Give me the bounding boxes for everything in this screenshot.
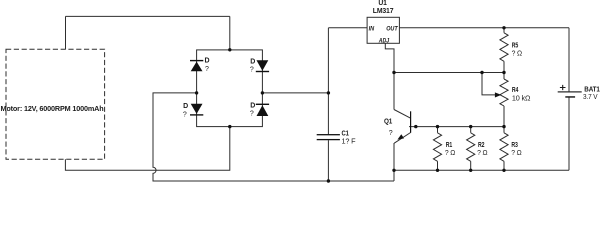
- svg-text:Q1: Q1: [384, 119, 392, 126]
- battery BAT1 long plate: [558, 91, 582, 92]
- wire ADJ pin jog: [385, 43, 394, 109]
- svg-text:R5: R5: [512, 43, 519, 50]
- junction emitter bottom: [392, 169, 395, 172]
- potentiometer R4 wiper arrow: [495, 92, 501, 97]
- capacitor C1 bottom plate: [317, 139, 340, 140]
- junction R3 bottom: [502, 169, 505, 172]
- junction bridge top: [228, 48, 231, 51]
- wire R3 leads: [503, 127, 505, 171]
- junction wiper node: [480, 71, 483, 74]
- wire ADJ node to R5/R4 junction: [394, 72, 504, 74]
- svg-text:? Ω: ? Ω: [477, 150, 487, 157]
- svg-text:? Ω: ? Ω: [511, 150, 521, 157]
- diode D1 cathode bar: [190, 60, 203, 61]
- svg-text:IN: IN: [369, 25, 375, 32]
- resistor R1 zigzag: [433, 133, 441, 162]
- svg-text:ADJ: ADJ: [378, 37, 390, 44]
- svg-text:C1: C1: [342, 130, 350, 137]
- svg-text:R1: R1: [446, 142, 453, 149]
- wire Q1 collector diagonal: [394, 110, 411, 119]
- svg-text:? Ω: ? Ω: [445, 150, 455, 157]
- diode D3 bottom-left triangle: [191, 104, 203, 114]
- svg-text:LM317: LM317: [373, 8, 394, 15]
- wire bottom right rail: [394, 169, 569, 171]
- svg-text:R2: R2: [478, 142, 485, 149]
- junction R5 bottom R4 top: [502, 71, 505, 74]
- wire R5 leads: [503, 28, 505, 73]
- junction cap bottom rail: [327, 179, 330, 182]
- svg-text:?: ?: [205, 66, 209, 73]
- LM317 box U1: [367, 17, 399, 43]
- svg-text:1? F: 1? F: [342, 139, 356, 146]
- wire R4 leads: [503, 73, 505, 127]
- potentiometer R4 zigzag: [500, 79, 508, 106]
- svg-text:D: D: [250, 59, 255, 66]
- svg-text:10 kΩ: 10 kΩ: [512, 95, 530, 102]
- svg-text:3.7 V: 3.7 V: [583, 94, 598, 101]
- wire bridge top lead: [229, 16, 231, 50]
- wire cap top lead: [327, 28, 329, 135]
- svg-text:?: ?: [183, 111, 187, 118]
- transistor Q1 base bar: [410, 111, 411, 132]
- junction R3 top R4 bottom: [502, 125, 505, 128]
- resistor R3 zigzag: [500, 133, 508, 162]
- resistor R2 zigzag: [467, 133, 475, 162]
- wire Q1 base to resistors: [409, 126, 504, 128]
- wire IN pin: [328, 27, 367, 29]
- svg-text:Motor: 12V, 6000RPM 1000mAh: Motor: 12V, 6000RPM 1000mAh: [1, 106, 104, 113]
- wire battery top lead: [568, 28, 570, 92]
- svg-text:? Ω: ? Ω: [512, 51, 522, 58]
- battery plus sign: [560, 85, 566, 90]
- svg-text:BAT1: BAT1: [584, 86, 600, 93]
- wire R4 wiper: [482, 73, 495, 95]
- wire DC minus: bridge left mid to bottom rail with hop: [153, 93, 394, 181]
- svg-text:R4: R4: [512, 87, 519, 94]
- junction ADJ node: [392, 71, 395, 74]
- wire top rail motor to bridge: [66, 15, 230, 17]
- diode D3 cathode bar: [190, 114, 203, 115]
- wire battery bottom lead: [568, 98, 570, 171]
- capacitor C1 top plate: [317, 134, 340, 135]
- svg-text:?: ?: [250, 66, 254, 73]
- wire R1 leads: [437, 127, 439, 171]
- wire motor bottom to bridge bottom: [65, 127, 229, 171]
- junction bridge right mid: [261, 91, 264, 94]
- svg-text:D: D: [183, 103, 188, 110]
- junction R5 top rail: [502, 26, 505, 29]
- diode D4 cathode bar: [256, 104, 269, 105]
- svg-text:U1: U1: [378, 0, 387, 7]
- junction base wire: [414, 125, 417, 128]
- wire cap bottom lead: [327, 140, 329, 181]
- junction R1 bottom: [436, 169, 439, 172]
- wire bridge right mid to cap node: [262, 92, 328, 94]
- svg-text:OUT: OUT: [386, 25, 398, 32]
- motor dashed box: [6, 49, 105, 159]
- wire OUT rail to battery: [399, 27, 569, 29]
- svg-text:D: D: [205, 58, 210, 65]
- battery BAT1 short plate: [565, 96, 575, 97]
- diode D2 top-right triangle: [257, 60, 269, 71]
- wire motor top lead: [65, 16, 67, 49]
- svg-text:?: ?: [250, 110, 254, 117]
- junction bridge left mid: [195, 91, 198, 94]
- wire Q1 emitter vertical: [393, 143, 395, 181]
- svg-text:R3: R3: [511, 142, 518, 149]
- svg-text:?: ?: [389, 130, 393, 137]
- diode D2 cathode bar: [256, 71, 269, 72]
- transistor Q1 emitter arrow: [397, 134, 404, 139]
- junction cap node: [327, 91, 330, 94]
- diode D4 bottom-right triangle: [257, 105, 269, 116]
- junction bridge bottom: [228, 125, 231, 128]
- resistor R5 zigzag: [500, 33, 508, 62]
- wire R2 leads: [470, 127, 472, 171]
- diode D1 top-left triangle: [191, 62, 203, 72]
- junction R2 top: [469, 125, 472, 128]
- bridge square wires: [197, 50, 263, 127]
- junction R1 top: [436, 125, 439, 128]
- svg-text:D: D: [250, 102, 255, 109]
- wire Q1 emitter diagonal: [394, 133, 410, 144]
- junction R2 bottom: [469, 169, 472, 172]
